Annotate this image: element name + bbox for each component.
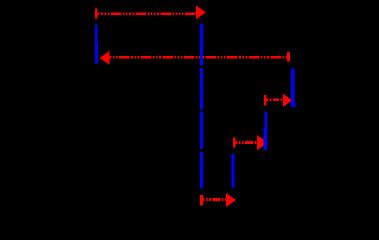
M2 arrowhead	[100, 51, 110, 65]
lifeline bar B2 segment 1	[200, 24, 203, 66]
M3 dashed line	[267, 98, 284, 101]
lifeline bar B2 segment 2	[200, 68, 203, 110]
message arrow M3 (short, left-to-right into right lifeline)	[264, 94, 292, 108]
M3 arrowhead	[283, 94, 292, 108]
message arrow M1 (top, left-to-right)	[95, 5, 206, 19]
M5 tail tick	[200, 195, 203, 205]
lifeline bar B5	[232, 154, 235, 187]
M3 tail tick	[264, 95, 267, 105]
message arrow M5 (bottom, left-to-right)	[200, 193, 236, 207]
M1 tail tick	[95, 9, 98, 19]
lifeline bar B2 segment 3	[200, 112, 203, 149]
M4 dashed line	[236, 141, 259, 144]
lifeline bar B4 upper thin segment	[264, 112, 267, 128]
lifeline bar B3 wider foot	[291, 103, 295, 107]
M4 arrowhead	[257, 135, 268, 150]
M1 dashed line	[98, 12, 196, 15]
M4 tail tick	[233, 137, 236, 147]
M5 arrowhead	[226, 193, 236, 207]
lifeline bar B2 segment 4	[200, 152, 203, 188]
message arrow M2 (long, right-to-left)	[100, 51, 290, 65]
lifeline bar B3	[291, 69, 294, 108]
lifeline bar B4 lower thick segment	[263, 127, 267, 149]
M2 dashed line	[109, 56, 288, 59]
message arrow M4 (short, left-to-right, head under bar)	[233, 135, 268, 150]
lifeline bar B1 lower thick segment	[95, 43, 98, 64]
lifeline bar B1 upper thin segment	[95, 25, 97, 43]
M2 tail tick	[287, 52, 290, 62]
M1 arrowhead	[196, 5, 206, 19]
M5 dashed line	[203, 198, 228, 201]
